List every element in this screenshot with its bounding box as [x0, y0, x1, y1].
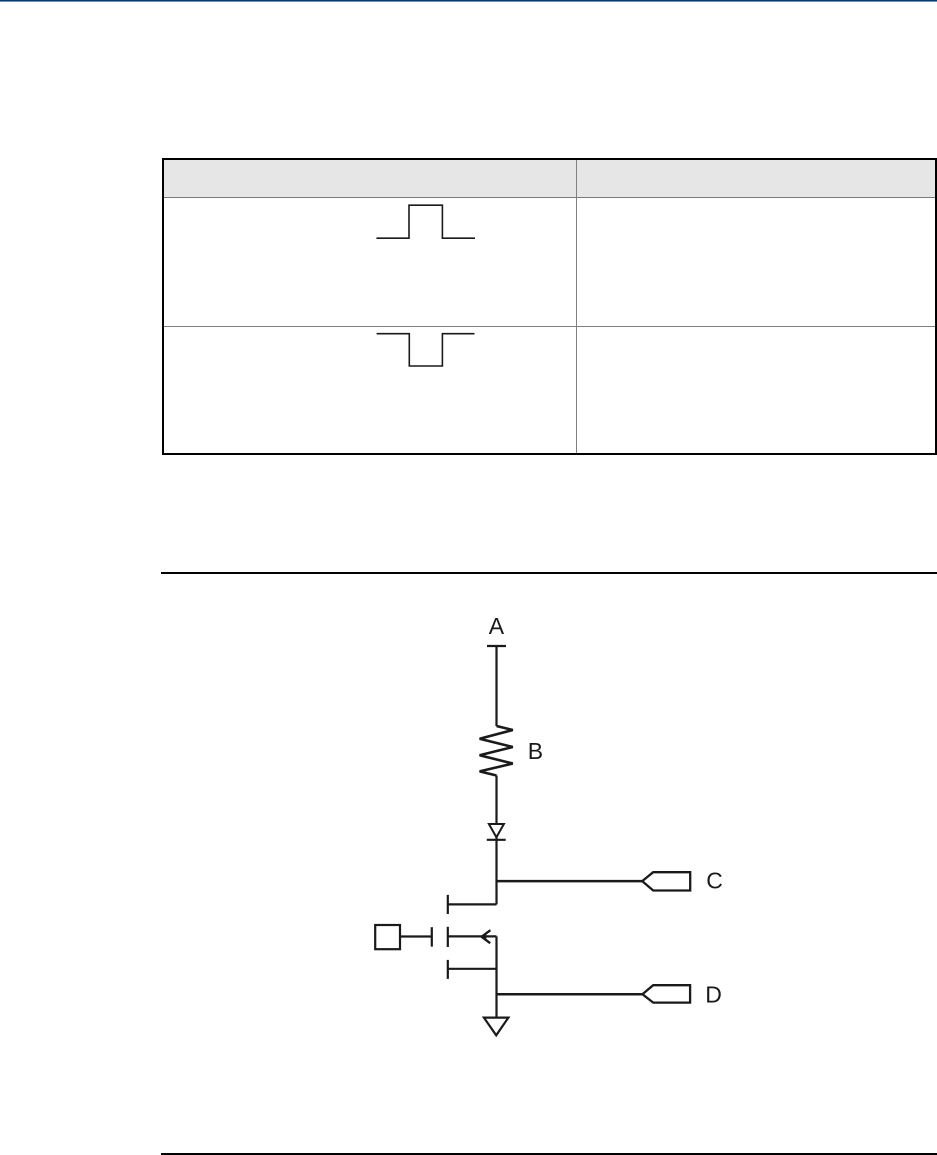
svg-text:C: C [706, 868, 723, 894]
svg-text:B: B [528, 738, 543, 764]
svg-text:A: A [489, 613, 505, 639]
svg-text:D: D [705, 982, 722, 1008]
